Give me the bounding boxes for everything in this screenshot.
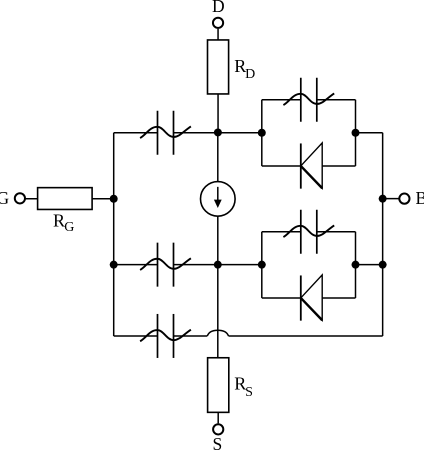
node gate junction xyxy=(110,195,118,203)
diode DBS xyxy=(301,275,322,321)
wire lower combo to right vertical xyxy=(356,264,383,266)
label S xyxy=(213,434,223,451)
terminal G xyxy=(15,193,25,203)
wire lower combo right edge xyxy=(355,232,357,298)
wire lower combo diode branch right xyxy=(322,297,355,299)
wire lower combo left edge xyxy=(261,232,263,298)
wire left vertical xyxy=(113,133,115,336)
terminal D xyxy=(213,18,223,28)
svg-text:B: B xyxy=(416,188,424,208)
wire lower combo cap branch right xyxy=(317,231,356,233)
wire bulk node to B terminal xyxy=(383,198,400,200)
terminal S xyxy=(213,424,223,434)
wire RG to gate node xyxy=(92,198,114,200)
wire upper combo diode branch right xyxy=(322,165,355,167)
wire top rail to current source xyxy=(217,133,219,182)
wire top rail left segment xyxy=(114,132,158,134)
wire crossover hop xyxy=(207,330,228,336)
wire G terminal to RG xyxy=(26,198,38,200)
current source ID xyxy=(201,182,236,217)
capacitor CGB xyxy=(140,314,191,358)
wire centre middle rail to RS xyxy=(217,265,219,358)
label RS xyxy=(234,374,253,400)
wire lower combo cap branch left xyxy=(262,231,301,233)
wire upper combo cap branch right xyxy=(317,99,356,101)
label G xyxy=(0,188,10,208)
wire bottom rail left segment xyxy=(114,335,158,337)
diode DBD xyxy=(301,143,322,189)
resistor RD xyxy=(208,40,229,94)
svg-text:D: D xyxy=(212,0,225,16)
wire current source to middle rail xyxy=(217,216,219,265)
resistor RG xyxy=(38,188,93,210)
capacitor CBS xyxy=(283,210,334,254)
label RD xyxy=(234,56,255,82)
wire upper combo cap branch left xyxy=(262,99,301,101)
wire D terminal to RD xyxy=(217,29,219,40)
node right-middle junction xyxy=(379,261,387,269)
node lower combo right junction xyxy=(352,261,360,269)
svg-text:G: G xyxy=(0,188,10,208)
label B xyxy=(416,188,424,208)
wire top rail right segment xyxy=(174,132,262,134)
node bulk junction xyxy=(379,195,387,203)
wire right vertical xyxy=(382,133,384,336)
wire upper combo diode branch left xyxy=(262,165,301,167)
label RG xyxy=(53,210,74,235)
svg-text:G: G xyxy=(64,220,74,235)
svg-text:D: D xyxy=(245,67,255,82)
wire middle rail left segment xyxy=(114,264,158,266)
node drain-rail junction xyxy=(214,128,222,136)
wire lower combo diode branch left xyxy=(262,297,301,299)
node upper combo left junction xyxy=(258,129,266,137)
capacitor CGS xyxy=(140,243,191,287)
node lower combo left junction xyxy=(258,261,266,269)
capacitor CBD xyxy=(283,78,334,122)
capacitor CGD xyxy=(140,111,191,155)
wire upper combo left edge xyxy=(261,100,263,166)
node upper combo right junction xyxy=(352,129,360,137)
wire RD to top rail xyxy=(217,94,219,133)
wire upper combo right edge xyxy=(355,100,357,166)
svg-text:S: S xyxy=(245,385,253,400)
wire bottom rail right segment xyxy=(229,335,383,337)
node centre-middle junction xyxy=(214,261,222,269)
terminal B xyxy=(399,194,409,204)
svg-text:R: R xyxy=(53,210,65,230)
resistor RS xyxy=(208,358,229,413)
node left-middle junction xyxy=(110,261,118,269)
wire upper combo to right vertical xyxy=(356,132,383,134)
wire middle rail right segment xyxy=(174,264,262,266)
wire RS to S terminal xyxy=(217,412,219,423)
label D xyxy=(212,0,225,16)
svg-text:S: S xyxy=(213,434,223,451)
wire bottom rail middle segment xyxy=(174,335,208,337)
